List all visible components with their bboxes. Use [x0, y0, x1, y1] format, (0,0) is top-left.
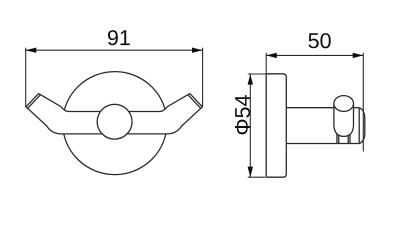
dimension 91: label "91" — [108, 30, 130, 45]
dimension phi54: dimension line — [249, 74, 251, 177]
dimension 91: right arrowhead — [192, 48, 203, 53]
side view: hook post body — [334, 104, 354, 137]
side view: post neck lines — [337, 134, 350, 144]
dimension 50: dimension line — [266, 54, 363, 56]
side view: hook post top ball — [334, 96, 354, 112]
dimension 50: extension line right — [362, 53, 364, 152]
side view: arm end cap arc — [359, 108, 365, 144]
dimension phi54: extension line top — [248, 73, 266, 75]
front view: backplate circle — [63, 72, 167, 175]
dimension 91: extension line right — [202, 48, 204, 107]
dimension 50: label "50" — [308, 33, 330, 48]
dimension phi54: extension line bottom — [248, 176, 265, 178]
side view: arm end face — [358, 108, 360, 143]
side view: wall plate — [266, 74, 286, 177]
side view: arm bottom line — [286, 143, 359, 145]
dimension 91: left arrowhead — [26, 48, 37, 53]
dimension 91: extension line left — [25, 48, 27, 107]
side view: arm top line — [286, 107, 359, 109]
front view: center hub circle — [97, 104, 132, 139]
dimension 50: right arrowhead — [353, 53, 364, 58]
front view: left hook tip inner cap line — [28, 95, 41, 108]
dimension phi54: label "PHI54" rotated — [235, 95, 250, 134]
dimension phi54: bottom arrowhead — [248, 167, 253, 178]
dimension 91: dimension line — [26, 49, 203, 51]
dimension 50: left arrowhead — [266, 53, 277, 58]
front view: right hook tip inner cap line — [188, 95, 201, 108]
front view: double hook bar outline with end caps — [26, 94, 202, 134]
dimension 50: extension line left — [265, 53, 267, 74]
dimension phi54: top arrowhead — [248, 74, 253, 85]
